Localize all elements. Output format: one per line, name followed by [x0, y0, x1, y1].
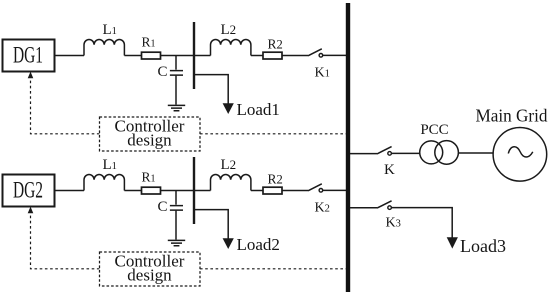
wire K3 to Load3 [391, 208, 452, 238]
measurement dashed wire controller2 to main bus [200, 268, 346, 270]
svg-text:PCC: PCC [420, 122, 448, 138]
svg-text:K: K [384, 162, 395, 178]
source Main Grid [493, 128, 547, 182]
svg-text:R2: R2 [268, 37, 283, 52]
wire K2 to main bus [323, 189, 346, 191]
resistor R2 (row2) [263, 187, 282, 194]
inductor L1 (row2) [84, 175, 124, 191]
svg-text:C: C [158, 64, 168, 80]
measurement dashed wire controller1 to main bus [200, 133, 346, 135]
DG1 box [3, 40, 55, 72]
inductor L2 (row2) [211, 175, 251, 191]
resistor R2 (row1) [263, 52, 282, 59]
load Load1 arrow [223, 103, 234, 114]
wire L1 to R1 (row2) [124, 190, 141, 192]
wire L2 to R2 [251, 55, 263, 57]
wire K1 to main bus [323, 54, 346, 56]
load Load3 arrow [447, 237, 458, 248]
svg-text:K1: K1 [315, 65, 330, 80]
load Load2 arrow [223, 238, 234, 249]
wire DG1 to L1 [55, 55, 85, 57]
capacitor C (row2) [170, 191, 183, 240]
wire Load2 branch [194, 210, 228, 239]
switch K1 [308, 49, 323, 57]
ground (row1) [168, 105, 185, 110]
switch K3 [377, 201, 392, 210]
wire DG2 to L1 [55, 190, 85, 192]
svg-text:L2: L2 [221, 22, 237, 38]
wire R2 to K1 [282, 55, 308, 57]
svg-text:Load1: Load1 [237, 100, 280, 119]
wire Load1 branch [194, 75, 228, 104]
wire PCC to Main Grid [458, 152, 492, 154]
svg-text:Load2: Load2 [237, 235, 280, 254]
wire B2 to L2 [194, 190, 211, 192]
controller design box 2 [100, 252, 201, 287]
wire K to PCC transformer [391, 152, 419, 154]
resistor R1 (row1) [142, 52, 161, 59]
wire L1 to R1 [124, 55, 141, 57]
resistor R1 (row2) [142, 187, 161, 194]
wire main bus to K [350, 153, 377, 155]
svg-text:DG2: DG2 [13, 178, 43, 203]
switch K2 [308, 184, 323, 192]
wire B1 to L2 [194, 55, 211, 57]
svg-text:design: design [127, 266, 172, 285]
ground (row2) [168, 240, 185, 245]
svg-text:K3: K3 [386, 215, 401, 230]
wire L2 to R2 (row2) [251, 190, 263, 192]
controller design box 1 [100, 117, 201, 152]
svg-text:DG1: DG1 [13, 43, 43, 68]
svg-text:R2: R2 [268, 172, 283, 187]
svg-text:Main Grid: Main Grid [476, 106, 548, 126]
wire R1 to bus B1 [161, 55, 195, 57]
main bus [346, 3, 350, 292]
DG2 box [3, 175, 55, 207]
switch K [377, 147, 392, 156]
transformer PCC [420, 141, 459, 165]
feedback dashed wire controller2 to DG2 [28, 207, 100, 269]
feedback dashed wire controller1 to DG1 [28, 72, 100, 134]
wire R2 to K2 [282, 190, 308, 192]
svg-text:K2: K2 [315, 201, 330, 216]
wire R1 to bus B2 [161, 190, 195, 192]
capacitor C (row1) [170, 56, 183, 105]
svg-text:Load3: Load3 [460, 236, 506, 256]
node bus B2 (DG2 local bus) [193, 157, 195, 224]
inductor L2 (row1) [211, 40, 251, 56]
node bus B1 (DG1 local bus) [193, 22, 195, 89]
svg-text:C: C [158, 199, 168, 215]
svg-text:design: design [127, 131, 172, 150]
inductor L1 (row1) [84, 39, 124, 55]
wire main bus to K3 [350, 207, 377, 209]
svg-text:L2: L2 [221, 157, 237, 173]
